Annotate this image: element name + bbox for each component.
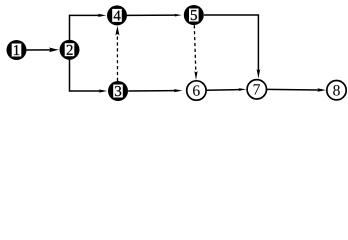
wire 1-2 — [27, 47, 60, 52]
wire 3-6 — [128, 89, 182, 92]
node 2 — [60, 40, 80, 60]
node 8 — [327, 81, 346, 100]
wire 2-4 elbow — [70, 14, 107, 40]
wire 4-5 — [127, 14, 182, 17]
dashed wire 5-6 — [194, 25, 197, 80]
wire 7-8 — [267, 88, 327, 91]
dashed wire 3-4 — [115, 26, 119, 81]
node 5 — [184, 5, 204, 25]
node 3 — [108, 81, 128, 101]
wire 2-3 elbow — [70, 60, 108, 93]
node 1 — [7, 40, 27, 60]
node 4 — [107, 5, 127, 25]
node 6 — [187, 81, 206, 100]
node 7 — [247, 80, 266, 99]
wire 5-7 elbow — [204, 15, 260, 79]
wire 6-7 — [206, 88, 246, 91]
